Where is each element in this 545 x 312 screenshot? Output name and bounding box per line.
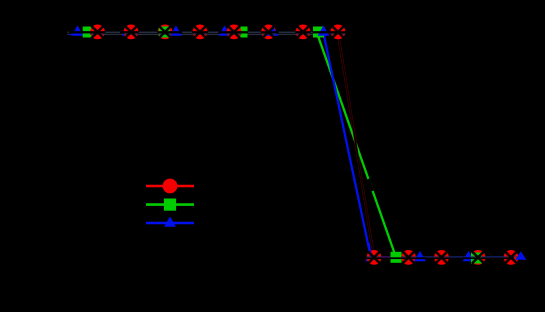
slate row 4: top plateau xyxy=(68,34,323,35)
black X L1 xyxy=(368,251,380,263)
legend green square xyxy=(164,199,176,211)
legend blue line xyxy=(146,222,194,225)
blue triangle C8 xyxy=(318,25,330,35)
blue triangle C5 xyxy=(219,25,231,35)
legend red disc xyxy=(163,179,178,194)
black band across cluster C6 xyxy=(261,31,279,33)
red disc C1 xyxy=(90,25,105,40)
black band across cluster C4 xyxy=(192,31,207,33)
navy fringe on disc L2 xyxy=(401,256,416,257)
black band across cluster C8 xyxy=(313,31,346,33)
navy fringe on disc L4 xyxy=(471,256,486,257)
black X C2 xyxy=(125,26,137,38)
black X C4 xyxy=(194,26,206,38)
green square C3 xyxy=(159,27,170,38)
black band across cluster C5 xyxy=(218,31,248,33)
black band across cluster L5 xyxy=(503,257,514,259)
purple segment: bottom plateau left xyxy=(375,256,405,258)
black X C5 xyxy=(228,26,240,38)
navy band: bottom plateau xyxy=(372,256,520,258)
navy fringe on disc L1 xyxy=(367,256,382,257)
green series line: descent xyxy=(317,33,396,257)
blue descent overlay into L1 disc xyxy=(369,243,371,257)
blue triangle L1 (under disc) xyxy=(365,251,377,261)
blue series line: descent xyxy=(324,34,372,258)
dark red fringe segment near C8 xyxy=(322,33,334,34)
navy fringe on disc L3 xyxy=(434,256,449,257)
black gap artifact on green descent xyxy=(368,179,372,191)
black X C6 xyxy=(263,26,275,38)
red disc C8 xyxy=(331,25,346,40)
slate row 2: top plateau xyxy=(68,32,318,33)
black band across cluster L4 xyxy=(462,257,485,259)
slate row 3 dark gap: top plateau xyxy=(68,33,323,34)
navy fringe on disc L5 xyxy=(504,256,519,257)
red disc L3 xyxy=(434,250,449,265)
legend blue triangle xyxy=(164,216,176,226)
black X L4 xyxy=(472,251,484,263)
navy fringe on disc C2 xyxy=(124,33,139,34)
red disc C5 xyxy=(227,25,242,40)
blue triangle C1 xyxy=(72,25,84,35)
blue triangle L2 xyxy=(414,251,426,261)
black X L5 xyxy=(505,251,517,263)
red disc C3 xyxy=(158,25,173,40)
black band across cluster C2 xyxy=(120,31,139,33)
black overlay line: descent xyxy=(338,33,374,258)
red disc L5 xyxy=(504,250,519,265)
red series line: descent xyxy=(338,33,374,258)
black X L2 xyxy=(403,251,415,263)
black X C7 xyxy=(297,26,309,38)
green square C1 xyxy=(83,27,94,38)
black X L3 xyxy=(436,251,448,263)
navy fringe on disc C5 xyxy=(227,33,242,34)
black band across cluster L3 xyxy=(434,257,449,259)
red disc C7 xyxy=(296,25,311,40)
black X C3 xyxy=(159,26,171,38)
blue triangle C6 xyxy=(267,25,279,35)
blue triangle C2 xyxy=(122,25,134,35)
black band across cluster C1 xyxy=(69,31,105,33)
navy fringe on disc C1 xyxy=(90,33,105,34)
black band across cluster C7 xyxy=(295,31,310,33)
green square L2 xyxy=(391,252,402,263)
green square C5 xyxy=(237,27,248,38)
red disc C4 xyxy=(193,25,208,40)
legend green line xyxy=(146,203,194,206)
black band across cluster C3 xyxy=(157,31,182,33)
slate row 1: top plateau xyxy=(68,31,318,32)
navy fringe on disc C4 xyxy=(193,33,208,34)
blue triangle C3 xyxy=(170,25,182,35)
blue triangle L5 xyxy=(515,251,526,260)
red disc C6 xyxy=(261,25,276,40)
navy fringe on disc C7 xyxy=(296,33,311,34)
red disc C2 xyxy=(124,25,139,40)
red disc L2 xyxy=(401,250,416,265)
navy fringe on disc C6 xyxy=(261,33,276,34)
navy fringe on disc C8 xyxy=(331,33,346,34)
black X C8 xyxy=(332,26,344,38)
black band across cluster L2 xyxy=(390,257,426,259)
blue triangle L4 xyxy=(463,251,475,261)
navy fringe on disc C3 xyxy=(158,33,173,34)
black band across cluster L1 xyxy=(365,257,382,259)
green square C8 xyxy=(313,27,324,38)
legend red line xyxy=(146,185,194,188)
red disc L1 xyxy=(367,250,382,265)
black X C1 xyxy=(92,26,104,38)
green square L4 xyxy=(471,253,482,264)
red disc L4 xyxy=(471,250,486,265)
blue line stub left of C1 triangle xyxy=(70,34,73,36)
